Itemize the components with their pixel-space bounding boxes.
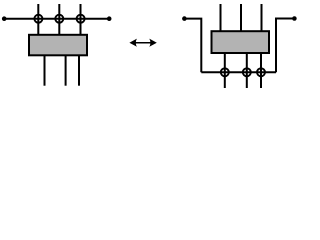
wire: output line 3 (left bottom) (78, 55, 80, 86)
wire: qubit line 3 (top) (261, 4, 263, 31)
gate box U (left) (29, 35, 87, 56)
wire: output line 1 (right bottom) (224, 54, 226, 89)
node: right terminal dot (107, 16, 112, 21)
wire: control rail (top horizontal) (4, 18, 109, 20)
CNOT target X4 (221, 68, 229, 76)
CNOT target X2 (55, 15, 63, 23)
wire: output line 3 (right bottom) (260, 54, 262, 89)
wire: qubit line 3 (top) (80, 4, 82, 35)
CNOT target X3 (77, 15, 85, 23)
CNOT target X5 (243, 68, 251, 76)
node: right terminal dot (292, 16, 297, 21)
equivalence arrow (129, 39, 156, 47)
gate box U (right) (212, 31, 270, 53)
wire: output line 1 (left bottom) (44, 55, 46, 86)
node: left terminal dot (2, 16, 7, 21)
wire: output line 2 (right bottom) (246, 54, 248, 89)
wire: qubit line 2 (top) (240, 4, 242, 31)
wire: control lead left (horiz+down) (184, 19, 201, 73)
wire: control lead right (up+horiz) (276, 19, 294, 73)
wire: qubit line 1 (top) (220, 4, 222, 31)
wire: output line 2 (left bottom) (65, 55, 67, 86)
wire: qubit line 1 (top) (37, 4, 39, 35)
wire: control rail (bottom horizontal) (201, 71, 276, 73)
CNOT target X1 (34, 15, 42, 23)
wire: qubit line 2 (top) (58, 4, 60, 35)
CNOT target X6 (257, 68, 265, 76)
node: left terminal dot (182, 16, 187, 21)
